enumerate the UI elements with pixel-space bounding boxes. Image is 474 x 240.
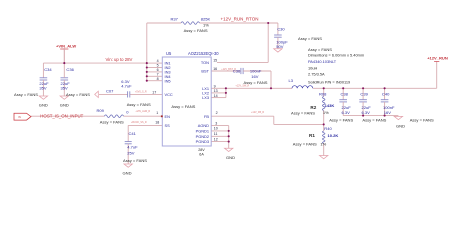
- svg-text:R37: R37: [171, 16, 179, 21]
- svg-text:GND: GND: [60, 102, 69, 107]
- svg-text:12: 12: [214, 137, 218, 141]
- svg-text:U5: U5: [166, 51, 172, 56]
- svg-text:C34: C34: [44, 67, 52, 72]
- svg-text:4.7uF: 4.7uF: [127, 145, 138, 150]
- svg-text:Assy = FANS: Assy = FANS: [362, 118, 386, 123]
- svg-text:TON: TON: [201, 60, 209, 65]
- svg-text:AOZ2152EQI-30: AOZ2152EQI-30: [188, 51, 219, 56]
- svg-text:+VIN_ALW: +VIN_ALW: [56, 43, 76, 48]
- svg-text:16: 16: [213, 67, 217, 71]
- svg-text:143K: 143K: [325, 103, 335, 108]
- svg-text:1: 1: [156, 111, 158, 115]
- svg-text:11: 11: [214, 132, 218, 136]
- svg-text:+12V_RUN_RTON: +12V_RUN_RTON: [221, 17, 259, 22]
- svg-text:Assy = FANS: Assy = FANS: [66, 92, 90, 97]
- svg-text:17: 17: [152, 91, 156, 95]
- svg-text:1%: 1%: [320, 142, 326, 147]
- svg-text:+12V_FB_R: +12V_FB_R: [251, 111, 264, 114]
- svg-text:6.3V: 6.3V: [362, 110, 371, 115]
- svg-text:100nF: 100nF: [250, 69, 262, 74]
- svg-text:+BUCK_SS_R: +BUCK_SS_R: [131, 121, 147, 124]
- svg-text:PGND1: PGND1: [196, 129, 209, 134]
- svg-text:GND: GND: [226, 155, 235, 160]
- svg-text:Assy = FANS: Assy = FANS: [308, 47, 332, 52]
- svg-text:10uH: 10uH: [308, 65, 317, 70]
- svg-text:R09: R09: [97, 108, 105, 113]
- svg-text:AGND: AGND: [198, 123, 209, 128]
- svg-text:100nF: 100nF: [383, 105, 395, 110]
- svg-text:R2: R2: [310, 105, 316, 110]
- svg-text:1%: 1%: [203, 22, 209, 27]
- svg-text:35V: 35V: [61, 86, 69, 91]
- svg-text:+12V_SW_R: +12V_SW_R: [235, 85, 249, 88]
- svg-text:825K: 825K: [201, 16, 211, 21]
- svg-text:1%: 1%: [323, 110, 329, 115]
- svg-text:PGND3: PGND3: [196, 139, 209, 144]
- svg-text:HOST_IS_ON_INPUT: HOST_IS_ON_INPUT: [40, 113, 83, 118]
- svg-text:L3: L3: [289, 78, 294, 83]
- svg-text:Assy = FANS: Assy = FANS: [171, 104, 195, 109]
- svg-text:GND: GND: [396, 124, 405, 129]
- svg-text:GND: GND: [39, 102, 48, 107]
- svg-text:Vin: up to 28V: Vin: up to 28V: [106, 57, 133, 62]
- svg-text:4.7uF: 4.7uF: [121, 84, 132, 89]
- svg-text:6: 6: [157, 68, 159, 72]
- svg-text:R08: R08: [319, 91, 327, 96]
- svg-text:R1: R1: [309, 133, 315, 138]
- svg-text:Assy = FANS: Assy = FANS: [291, 110, 315, 115]
- svg-text:C30: C30: [277, 27, 285, 32]
- svg-text:25V: 25V: [127, 150, 135, 155]
- svg-text:Assy = FANS: Assy = FANS: [293, 142, 317, 147]
- svg-text:6.3V: 6.3V: [342, 110, 351, 115]
- svg-text:Assy = FANS: Assy = FANS: [184, 28, 208, 33]
- svg-text:PGND2: PGND2: [196, 134, 209, 139]
- svg-text:LX3: LX3: [202, 95, 209, 100]
- svg-text:16V: 16V: [251, 74, 259, 79]
- svg-text:C07: C07: [106, 88, 114, 93]
- svg-text:10.2K: 10.2K: [328, 133, 339, 138]
- svg-text:FB: FB: [204, 114, 209, 119]
- svg-text:Assy = FANS: Assy = FANS: [100, 119, 124, 124]
- svg-text:Assy = FANS: Assy = FANS: [298, 36, 322, 41]
- svg-text:BST: BST: [201, 69, 209, 74]
- svg-text:16V: 16V: [384, 110, 392, 115]
- svg-text:+5V0_S_R: +5V0_S_R: [135, 91, 147, 94]
- svg-text:18: 18: [155, 121, 159, 125]
- svg-text:VCC: VCC: [165, 92, 173, 97]
- svg-text:IN5: IN5: [165, 78, 171, 83]
- svg-text:7: 7: [157, 72, 159, 76]
- svg-text:4: 4: [157, 59, 159, 63]
- svg-text:0: 0: [126, 109, 129, 114]
- svg-text:SolidRun P/N = IN00119: SolidRun P/N = IN00119: [308, 79, 350, 84]
- svg-text:9: 9: [214, 85, 216, 89]
- svg-text:IN: IN: [18, 116, 21, 119]
- svg-text:6A: 6A: [199, 153, 204, 157]
- svg-text:C36: C36: [233, 69, 241, 74]
- svg-text:GND: GND: [123, 171, 132, 176]
- svg-text:2.75/3.5A: 2.75/3.5A: [308, 71, 325, 76]
- svg-text:PA4340.103NLT: PA4340.103NLT: [308, 59, 337, 64]
- svg-text:Assy = FANS: Assy = FANS: [329, 118, 353, 123]
- svg-text:15: 15: [213, 59, 217, 63]
- svg-text:Dimentions = 6.00mm x 5.40mm: Dimentions = 6.00mm x 5.40mm: [308, 53, 364, 58]
- svg-text:50V: 50V: [276, 44, 284, 49]
- svg-text:C36: C36: [66, 67, 74, 72]
- svg-text:C39: C39: [360, 91, 368, 96]
- svg-text:22uF: 22uF: [362, 105, 372, 110]
- svg-text:Assy = FANS: Assy = FANS: [123, 158, 147, 163]
- svg-text:22uF: 22uF: [342, 105, 352, 110]
- svg-text:Assy = FANS: Assy = FANS: [127, 102, 151, 107]
- svg-text:SS: SS: [165, 123, 171, 128]
- svg-text:Assy = FANS: Assy = FANS: [410, 118, 434, 123]
- svg-text:+VIN_ALW_R: +VIN_ALW_R: [135, 110, 150, 113]
- svg-text:C38: C38: [341, 91, 349, 96]
- svg-text:C41: C41: [129, 131, 137, 136]
- svg-text:C40: C40: [382, 91, 390, 96]
- svg-text:14: 14: [214, 94, 218, 98]
- svg-text:Assy = FANS: Assy = FANS: [14, 92, 38, 97]
- svg-text:R40: R40: [324, 126, 332, 131]
- svg-text:10: 10: [214, 127, 218, 131]
- svg-text:5: 5: [157, 64, 159, 68]
- svg-text:2: 2: [216, 111, 218, 115]
- svg-text:EN: EN: [165, 114, 171, 119]
- svg-text:35V: 35V: [39, 86, 47, 91]
- svg-text:+12V_RUN: +12V_RUN: [427, 56, 448, 61]
- svg-text:28V: 28V: [198, 148, 205, 152]
- svg-text:8: 8: [157, 77, 159, 81]
- svg-text:13: 13: [214, 89, 218, 93]
- svg-text:3: 3: [215, 121, 217, 125]
